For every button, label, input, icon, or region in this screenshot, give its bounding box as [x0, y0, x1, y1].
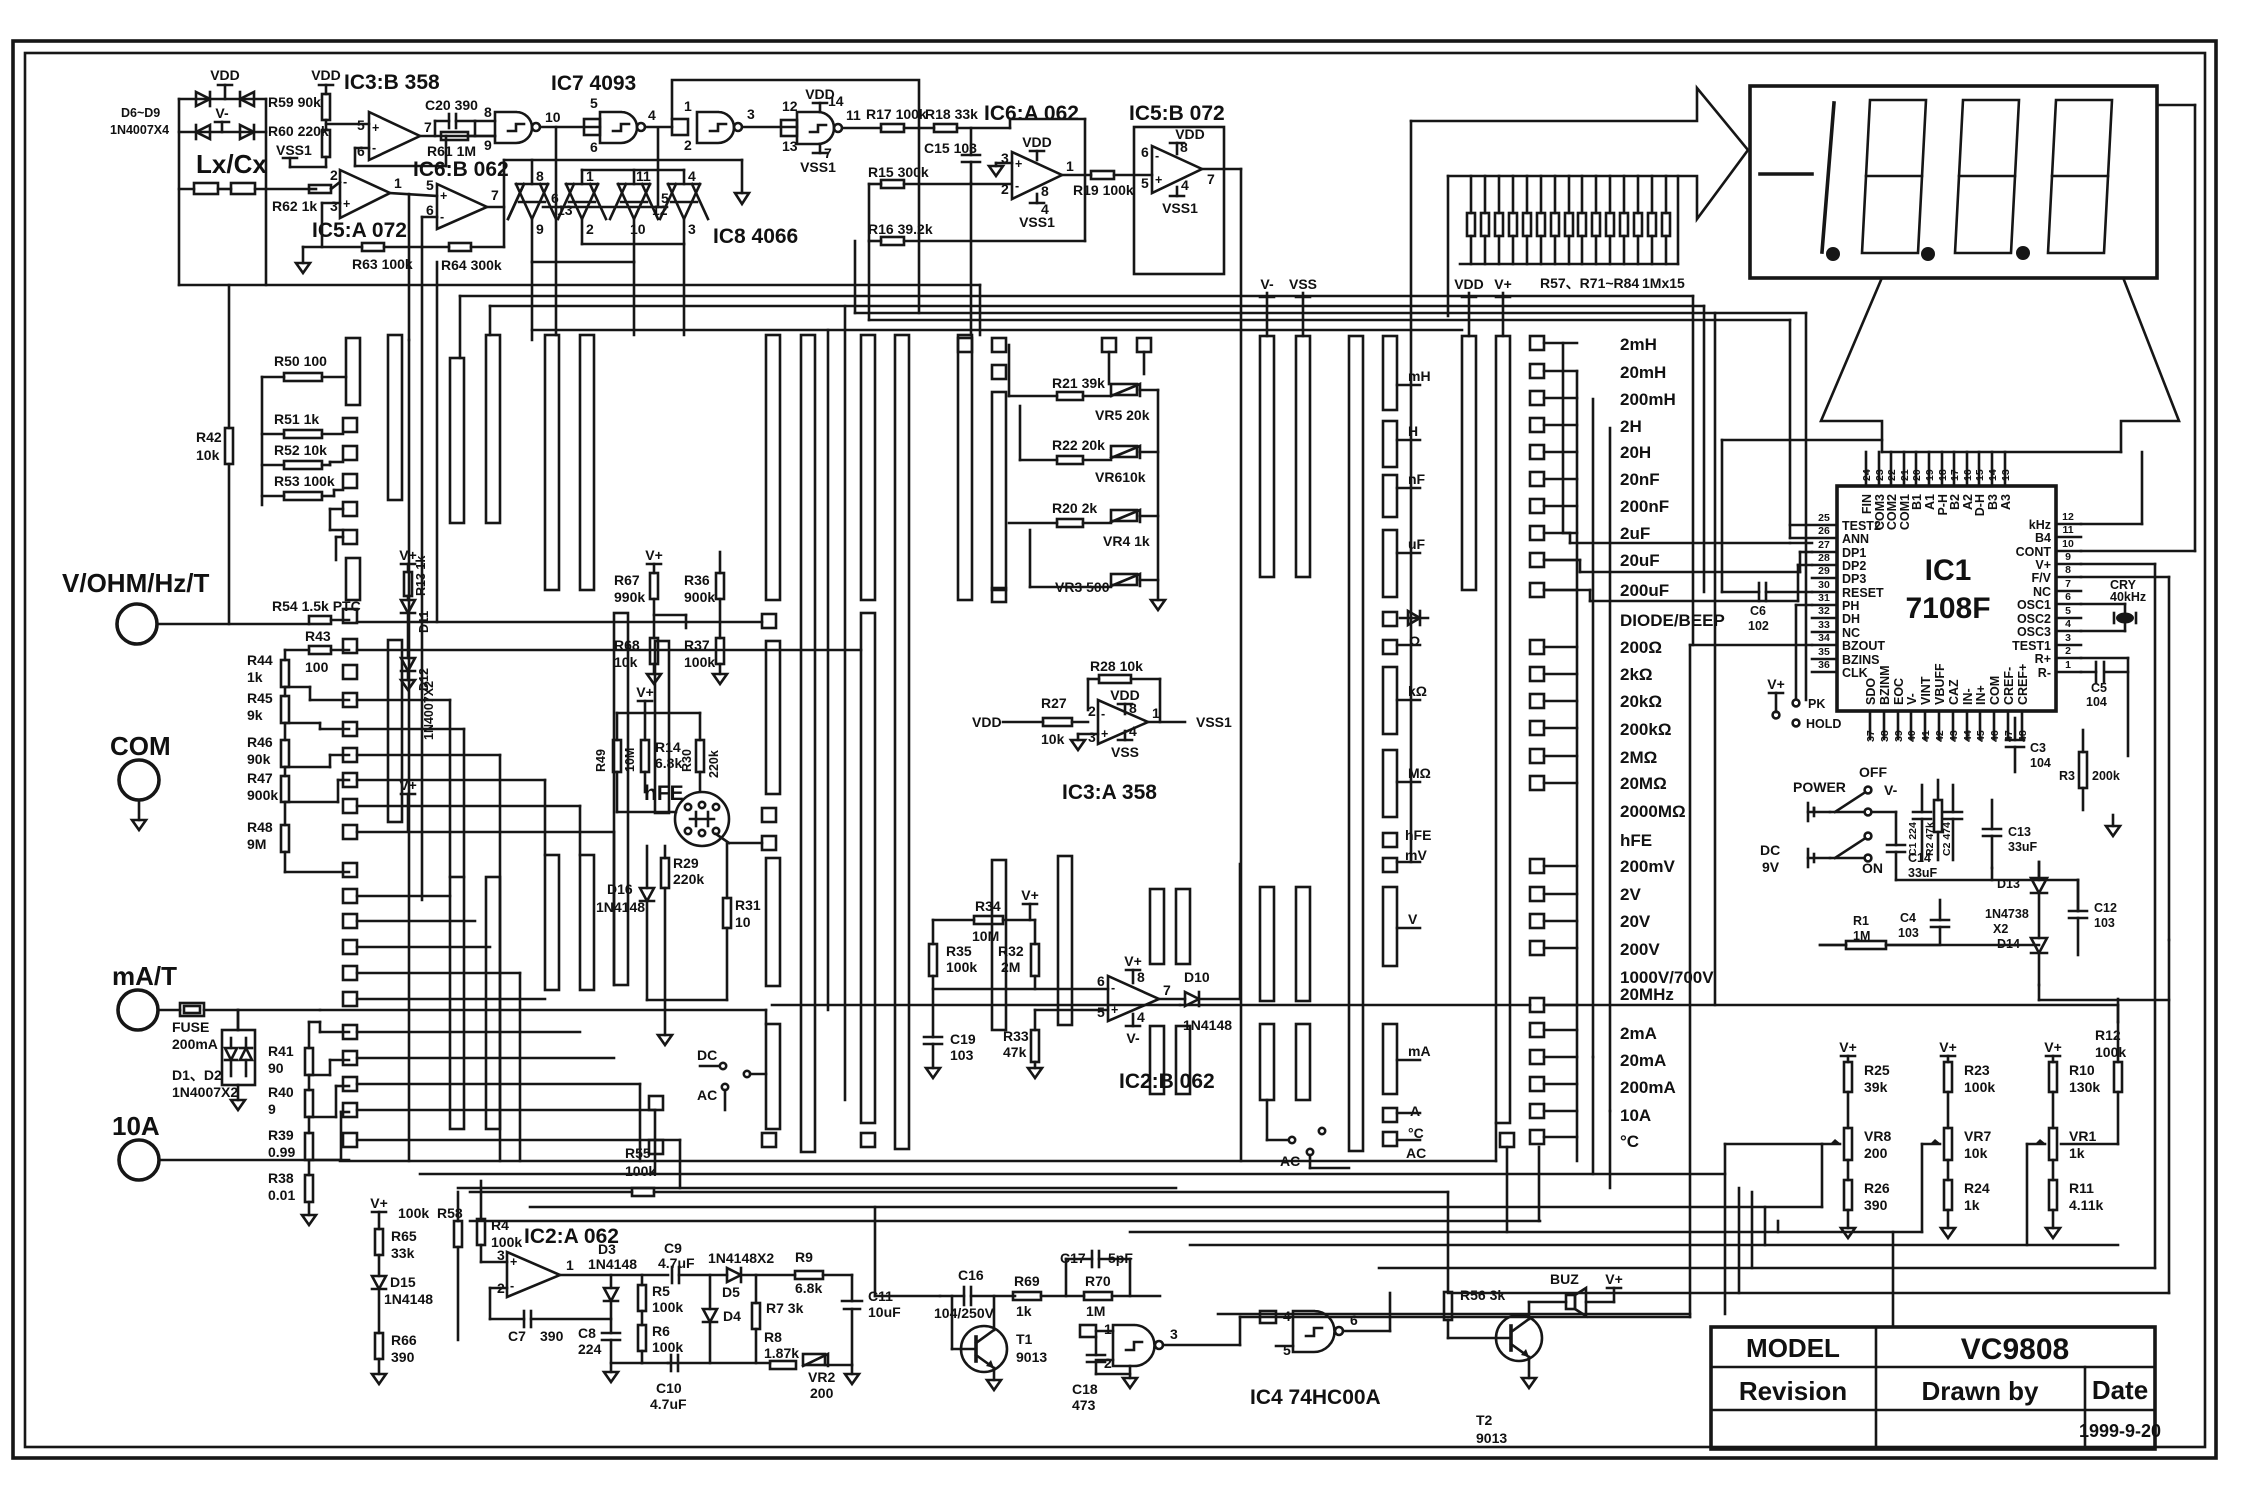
svg-text:R32: R32: [998, 943, 1024, 959]
svg-text:+: +: [343, 197, 350, 211]
svg-text:R49: R49: [594, 749, 608, 772]
terminal V/OHM/Hz/T: [62, 568, 309, 644]
capacitor C20 390: [425, 97, 478, 136]
svg-text:1N4007X4: 1N4007X4: [110, 123, 169, 137]
svg-text:1: 1: [394, 175, 402, 191]
svg-text:14: 14: [1987, 469, 1999, 481]
svg-text:R4: R4: [491, 1217, 509, 1233]
diode D11 with R13 1k: [399, 547, 431, 658]
svg-text:D1、D2: D1、D2: [172, 1067, 222, 1083]
range select contact squares: [1530, 336, 1577, 1144]
svg-text:HOLD: HOLD: [1806, 717, 1841, 731]
svg-text:100k: 100k: [652, 1339, 683, 1355]
range labels: [1620, 335, 1725, 1151]
svg-text:100k: 100k: [491, 1234, 522, 1250]
svg-text:7: 7: [2065, 578, 2071, 590]
svg-text:DP2: DP2: [1842, 559, 1866, 573]
svg-text:29: 29: [1818, 565, 1830, 577]
svg-text:10: 10: [2062, 538, 2074, 550]
svg-text:C4: C4: [1900, 911, 1916, 925]
svg-text:R16 39.2k: R16 39.2k: [868, 221, 933, 237]
svg-text:Date: Date: [2092, 1375, 2148, 1405]
svg-text:DC: DC: [697, 1047, 717, 1063]
resistor R64 300k: [422, 243, 504, 273]
svg-text:RESET: RESET: [1842, 586, 1884, 600]
svg-text:200mH: 200mH: [1620, 390, 1676, 409]
bottom feedback rail: [611, 1362, 770, 1365]
4066 switch S1 p8,6,9: [508, 160, 556, 262]
svg-text:VDD: VDD: [311, 67, 341, 83]
svg-text:A3: A3: [1999, 494, 2013, 510]
svg-text:-: -: [510, 1279, 514, 1293]
svg-text:100k: 100k: [684, 654, 715, 670]
resistor R55 100k: [625, 1145, 656, 1196]
svg-text:4: 4: [1129, 723, 1137, 739]
diode D10 1N4148: [1159, 864, 1240, 1033]
svg-text:R69: R69: [1014, 1273, 1040, 1289]
svg-text:BZINM: BZINM: [1878, 665, 1892, 705]
diode D8: [196, 125, 210, 139]
svg-text:20V: 20V: [1620, 912, 1651, 931]
svg-text:R57、R71~R84: R57、R71~R84: [1540, 275, 1639, 291]
resistor network R57,R71~R84 1Mx15: [1411, 121, 1678, 862]
svg-text:+: +: [440, 189, 447, 203]
svg-text:33: 33: [1818, 619, 1830, 631]
svg-text:+: +: [1155, 173, 1162, 187]
svg-text:BZOUT: BZOUT: [1842, 639, 1885, 653]
svg-text:6.8k: 6.8k: [655, 755, 682, 771]
svg-text:R44: R44: [247, 652, 273, 668]
POWER switch and battery DC 9V: [1760, 764, 1898, 876]
resistor R34 10M: [933, 887, 1039, 944]
svg-text:MODEL: MODEL: [1746, 1333, 1840, 1363]
svg-text:10k: 10k: [614, 654, 638, 670]
resistor R9 6.8k: [795, 1249, 852, 1296]
svg-text:SDO: SDO: [1864, 678, 1878, 705]
V+ stub mid wafer: [399, 777, 417, 830]
svg-text:COM2: COM2: [1885, 494, 1899, 530]
svg-text:200uF: 200uF: [1620, 581, 1669, 600]
svg-text:COM: COM: [110, 731, 171, 761]
op-amp IC3:A 358 with R28 10k: [972, 658, 1232, 804]
svg-text:12: 12: [2062, 511, 2074, 523]
IC8 interconnect wires: [504, 127, 742, 340]
svg-text:200V: 200V: [1620, 940, 1660, 959]
svg-text:2: 2: [1001, 181, 1009, 197]
svg-text:9k: 9k: [247, 707, 263, 723]
svg-text:33k: 33k: [391, 1245, 415, 1261]
svg-text:IC3:B 358: IC3:B 358: [344, 71, 440, 94]
svg-text:3: 3: [1088, 729, 1096, 745]
svg-text:R21 39k: R21 39k: [1052, 375, 1105, 391]
svg-text:IC5:A 072: IC5:A 072: [312, 219, 407, 242]
svg-text:6.8k: 6.8k: [795, 1280, 822, 1296]
svg-text:OSC3: OSC3: [2017, 625, 2051, 639]
svg-text:14: 14: [828, 93, 844, 109]
svg-text:100k: 100k: [625, 1163, 656, 1179]
svg-text:+: +: [510, 1255, 517, 1269]
svg-text:COM: COM: [1988, 676, 2002, 705]
svg-text:CAZ: CAZ: [1947, 679, 1961, 705]
svg-text:FUSE: FUSE: [172, 1019, 209, 1035]
svg-text:390: 390: [391, 1349, 415, 1365]
svg-text:90k: 90k: [247, 751, 271, 767]
wafer contact squares (left column): [343, 609, 357, 1147]
svg-text:VINT: VINT: [1919, 676, 1933, 705]
svg-text:200mA: 200mA: [172, 1036, 218, 1052]
svg-text:9: 9: [484, 137, 492, 153]
svg-text:VR2: VR2: [808, 1369, 835, 1385]
svg-text:1N4148: 1N4148: [1183, 1017, 1232, 1033]
resistor R29 220k: [661, 846, 704, 1000]
svg-text:C15 103: C15 103: [924, 140, 977, 156]
svg-text:OFF: OFF: [1859, 764, 1887, 780]
power rails V- VSS VDD V+ labels: [1260, 276, 1512, 336]
capacitor C10 4.7uF: [650, 1355, 687, 1412]
svg-text:20nF: 20nF: [1620, 470, 1660, 489]
svg-text:kHz: kHz: [2029, 518, 2051, 532]
terminal 10A: [112, 1111, 349, 1180]
top routing bus lines: [179, 169, 1806, 1161]
resistor column R23 100k VR7 10k R24 1k: [1922, 1039, 1995, 1238]
svg-text:22: 22: [1886, 469, 1898, 481]
svg-text:V+: V+: [1839, 1039, 1857, 1055]
svg-text:Revision: Revision: [1739, 1376, 1847, 1406]
resistor R48 9M: [247, 802, 289, 872]
diode D9: [240, 125, 254, 139]
svg-text:PK: PK: [1808, 697, 1825, 711]
svg-text:OSC2: OSC2: [2017, 612, 2051, 626]
resistor R60 220k: [268, 120, 330, 167]
svg-text:10A: 10A: [1620, 1106, 1651, 1125]
svg-text:R26: R26: [1864, 1180, 1890, 1196]
resistor R8 1.87k: [764, 1329, 799, 1369]
svg-text:2kΩ: 2kΩ: [1620, 665, 1653, 684]
svg-text:C9: C9: [664, 1240, 682, 1256]
svg-text:90: 90: [268, 1060, 284, 1076]
svg-text:7: 7: [491, 187, 499, 203]
display digit 1: [1822, 103, 1834, 252]
svg-text:VSS: VSS: [1289, 276, 1317, 292]
svg-text:38: 38: [1879, 730, 1891, 742]
svg-text:R65: R65: [391, 1228, 417, 1244]
resistors R49 10M R14 6.8k R30 220k: [594, 684, 721, 812]
svg-text:4.7uF: 4.7uF: [650, 1396, 687, 1412]
svg-text:42: 42: [1934, 730, 1946, 742]
svg-text:C3: C3: [2030, 741, 2046, 755]
4066 switch S4 p4,5,3: [660, 170, 708, 244]
svg-text:8: 8: [1137, 969, 1145, 985]
svg-text:5pF: 5pF: [1108, 1250, 1133, 1266]
svg-text:R29: R29: [673, 855, 699, 871]
capacitor C14 33uF: [1872, 812, 1938, 880]
display minus segment: [1760, 172, 1812, 176]
svg-text:VR8: VR8: [1864, 1128, 1891, 1144]
svg-text:9013: 9013: [1476, 1430, 1507, 1446]
svg-text:6: 6: [1141, 144, 1149, 160]
svg-text:3: 3: [497, 1247, 505, 1263]
svg-text:R31: R31: [735, 897, 761, 913]
svg-text:17: 17: [1949, 469, 1961, 481]
svg-text:IC2:B 062: IC2:B 062: [1119, 1070, 1215, 1093]
op-amp IC3:B 358: [326, 71, 475, 166]
capacitor C12 103: [2069, 880, 2117, 955]
nand gate IC7 p1,2 out3: [672, 98, 797, 153]
svg-text:104/250V: 104/250V: [934, 1305, 995, 1321]
svg-text:3: 3: [1170, 1326, 1178, 1342]
svg-text:R36: R36: [684, 572, 710, 588]
svg-text:10: 10: [735, 914, 751, 930]
svg-text:C20 390: C20 390: [425, 97, 478, 113]
svg-text:103: 103: [1898, 926, 1919, 940]
resistor R19 100k: [1073, 171, 1152, 198]
capacitor C5 104: [2081, 658, 2128, 756]
svg-text:32: 32: [1818, 605, 1830, 617]
diode/beep unit symbol: [1400, 611, 1428, 625]
terminal COM: [110, 731, 171, 830]
svg-text:-: -: [1101, 707, 1105, 721]
resistor R7 3k: [752, 1275, 804, 1363]
capacitor C4 103: [1898, 900, 1949, 944]
svg-text:4: 4: [1181, 177, 1189, 193]
svg-text:EOC: EOC: [1892, 678, 1906, 705]
svg-text:A1: A1: [1923, 494, 1937, 510]
svg-text:V+: V+: [1124, 953, 1142, 969]
svg-text:R25: R25: [1864, 1062, 1890, 1078]
resistor R1 1M: [1820, 914, 1940, 949]
svg-text:2H: 2H: [1620, 417, 1642, 436]
svg-text:11: 11: [2062, 524, 2073, 536]
20MHz long wire: [772, 1005, 2118, 1022]
svg-text:10A: 10A: [112, 1111, 160, 1141]
feedback loop wire over IC7: [672, 80, 919, 128]
svg-text:T1: T1: [1016, 1331, 1033, 1347]
svg-text:VR1: VR1: [2069, 1128, 2096, 1144]
svg-text:V+: V+: [636, 684, 654, 700]
resistor R5 100k: [638, 1275, 683, 1315]
svg-text:DP1: DP1: [1842, 546, 1866, 560]
svg-text:CONT: CONT: [2016, 545, 2052, 559]
wafer contact squares (misc): [649, 338, 1514, 1154]
wire vertical right of R26: [1892, 1232, 1895, 1327]
svg-text:VR5 20k: VR5 20k: [1095, 407, 1150, 423]
svg-text:-: -: [1015, 179, 1019, 193]
diode D6: [196, 92, 210, 106]
svg-text:R62 1k: R62 1k: [272, 198, 317, 214]
svg-text:27: 27: [1818, 539, 1830, 551]
svg-text:D16: D16: [607, 881, 633, 897]
svg-text:200nF: 200nF: [1620, 497, 1669, 516]
resistor R22 20k with trimmer VR6 10k: [1020, 437, 1158, 485]
nand gate IC4:B: [1240, 1308, 1390, 1358]
resistor R53 100k: [262, 473, 343, 500]
resistor network R57 R71~R84 bodies: [1467, 176, 1670, 264]
svg-text:200kΩ: 200kΩ: [1620, 720, 1671, 739]
IC1 bottom pins 37..48: [1864, 663, 2030, 742]
svg-text:20MHz: 20MHz: [1620, 985, 1674, 1004]
svg-text:34: 34: [1818, 632, 1830, 644]
svg-text:mA: mA: [1408, 1043, 1431, 1059]
svg-text:VSS1: VSS1: [1019, 214, 1055, 230]
op-amp IC6:A 062: [984, 102, 1091, 241]
svg-text:9: 9: [536, 221, 544, 237]
svg-text:47k: 47k: [1003, 1044, 1027, 1060]
svg-text:+: +: [1015, 157, 1022, 171]
svg-text:V-: V-: [1260, 276, 1274, 292]
svg-text:1N4148: 1N4148: [588, 1256, 637, 1272]
svg-text:R27: R27: [1041, 695, 1067, 711]
4066 switch S3 p11,12,10: [610, 170, 658, 262]
svg-text:R53 100k: R53 100k: [274, 473, 335, 489]
svg-text:IC8 4066: IC8 4066: [713, 225, 798, 248]
svg-text:VSS1: VSS1: [1196, 714, 1232, 730]
svg-text:C13: C13: [2008, 825, 2031, 839]
capacitor C8 224: [578, 1325, 620, 1382]
svg-text:V-: V-: [1905, 693, 1919, 705]
svg-text:C7: C7: [508, 1328, 526, 1344]
svg-text:B1: B1: [1910, 494, 1924, 510]
svg-text:39k: 39k: [1864, 1079, 1888, 1095]
svg-text:1N4148: 1N4148: [384, 1291, 433, 1307]
svg-text:nF: nF: [1408, 471, 1426, 487]
svg-text:20mA: 20mA: [1620, 1051, 1666, 1070]
svg-text:R51 1k: R51 1k: [274, 411, 319, 427]
svg-text:6: 6: [426, 202, 434, 218]
svg-text:44: 44: [1962, 730, 1974, 742]
svg-text:43: 43: [1948, 730, 1960, 742]
svg-text:6: 6: [590, 139, 598, 155]
svg-text:19: 19: [1924, 469, 1936, 481]
svg-text:33uF: 33uF: [1908, 866, 1938, 880]
diodes D1 D2 1N4007X2: [172, 1010, 255, 1110]
svg-text:103: 103: [2094, 916, 2115, 930]
svg-text:R24: R24: [1964, 1180, 1990, 1196]
svg-text:R+: R+: [2035, 652, 2051, 666]
svg-text:V: V: [1408, 911, 1418, 927]
svg-text:R63 100k: R63 100k: [352, 256, 413, 272]
PK / HOLD test points: [1767, 676, 1841, 731]
svg-text:1: 1: [1152, 705, 1160, 721]
svg-text:6: 6: [1097, 973, 1105, 989]
resistor R38 0.01: [268, 1160, 316, 1225]
block arrow from IC1 up to display: [1821, 280, 2179, 452]
resistor R16 39.2k: [868, 184, 1085, 245]
svg-text:5: 5: [1141, 175, 1149, 191]
svg-text:VR610k: VR610k: [1095, 469, 1146, 485]
svg-text:990k: 990k: [614, 589, 645, 605]
resistor column R25 39k VR8 200 R26 390: [1822, 1039, 1891, 1238]
svg-text:36: 36: [1818, 659, 1830, 671]
long mid verticals: [828, 306, 845, 1100]
svg-text:6: 6: [357, 143, 365, 159]
svg-text:103: 103: [950, 1047, 974, 1063]
wire C16 feed: [875, 1207, 940, 1296]
IC1 right pins 12..1: [2012, 511, 2081, 680]
svg-text:20: 20: [1911, 469, 1923, 481]
svg-text:V+: V+: [2044, 1039, 2062, 1055]
DC/AC selector switch: [697, 1047, 766, 1110]
svg-text:DC: DC: [1760, 842, 1780, 858]
svg-text:1: 1: [2065, 659, 2071, 671]
Lx/Cx terminals: [179, 149, 309, 194]
4066 switch S2 p1,13,2: [558, 170, 606, 244]
svg-text:D3: D3: [598, 1241, 616, 1257]
svg-text:°C: °C: [1620, 1132, 1639, 1151]
svg-text:R17 100k: R17 100k: [866, 106, 927, 122]
svg-text:13: 13: [557, 202, 573, 218]
svg-text:3: 3: [688, 221, 696, 237]
svg-text:104: 104: [2086, 695, 2107, 709]
svg-text:1k: 1k: [2069, 1145, 2085, 1161]
svg-text:900k: 900k: [247, 787, 278, 803]
diode D16 1N4148: [596, 846, 654, 1000]
svg-text:VDD: VDD: [972, 714, 1002, 730]
svg-text:C10: C10: [656, 1380, 682, 1396]
svg-text:10k: 10k: [196, 447, 220, 463]
svg-text:IC5:B 072: IC5:B 072: [1129, 102, 1225, 125]
svg-text:1k: 1k: [247, 669, 263, 685]
svg-text:8: 8: [484, 104, 492, 120]
svg-text:9V: 9V: [1762, 859, 1780, 875]
VSS1 stub: [276, 142, 326, 167]
ground near C3: [2106, 815, 2120, 836]
svg-text:DIODE/BEEP: DIODE/BEEP: [1620, 611, 1725, 630]
svg-text:R64 300k: R64 300k: [441, 257, 502, 273]
resistor R63 100k: [303, 243, 422, 272]
svg-text:4: 4: [1137, 1009, 1145, 1025]
capacitor C15 103: [924, 128, 980, 183]
svg-text:10uF: 10uF: [868, 1304, 901, 1320]
svg-text:R20 2k: R20 2k: [1052, 500, 1097, 516]
svg-text:2mH: 2mH: [1620, 335, 1657, 354]
resistor ladder R44 1k: [247, 650, 289, 687]
svg-text:D15: D15: [390, 1274, 416, 1290]
svg-text:45: 45: [1975, 730, 1987, 742]
svg-text:9013: 9013: [1016, 1349, 1047, 1365]
svg-text:V-: V-: [1884, 782, 1898, 798]
svg-text:DP3: DP3: [1842, 572, 1866, 586]
resistor R56 3k: [1444, 1268, 1511, 1338]
svg-text:-: -: [1155, 149, 1159, 163]
svg-text:IC3:A 358: IC3:A 358: [1062, 781, 1157, 804]
svg-text:AC: AC: [697, 1087, 717, 1103]
svg-text:R39: R39: [268, 1127, 294, 1143]
svg-text:VDD: VDD: [1454, 276, 1484, 292]
svg-text:7108F: 7108F: [1905, 592, 1990, 625]
capacitor C3 104: [2006, 718, 2051, 772]
svg-text:2V: 2V: [1620, 885, 1641, 904]
svg-text:10k: 10k: [1041, 731, 1065, 747]
svg-text:1k: 1k: [1016, 1303, 1032, 1319]
title block table: [1711, 1327, 2161, 1449]
upper wafer contact squares: [343, 418, 360, 600]
svg-text:15: 15: [1974, 469, 1986, 481]
svg-text:R10: R10: [2069, 1062, 2095, 1078]
nand gate IC7 p5,6 out4: [584, 95, 672, 155]
svg-text:R42: R42: [196, 429, 222, 445]
resistor R51 1k: [262, 411, 343, 438]
terminal mA/T: [112, 961, 180, 1030]
svg-text:kΩ: kΩ: [1408, 683, 1427, 699]
svg-text:C6: C6: [1750, 604, 1766, 618]
svg-text:PH: PH: [1842, 599, 1859, 613]
capacitor C18 473: [1072, 1337, 1137, 1413]
svg-text:AC: AC: [1280, 1153, 1300, 1169]
capacitors C1 224, R2 47k, C2 474 (vertical): [1907, 780, 1962, 860]
svg-text:V+: V+: [2035, 558, 2051, 572]
op-amp IC6:B 062: [413, 158, 509, 247]
capacitor C9 4.7uF: [658, 1240, 727, 1283]
